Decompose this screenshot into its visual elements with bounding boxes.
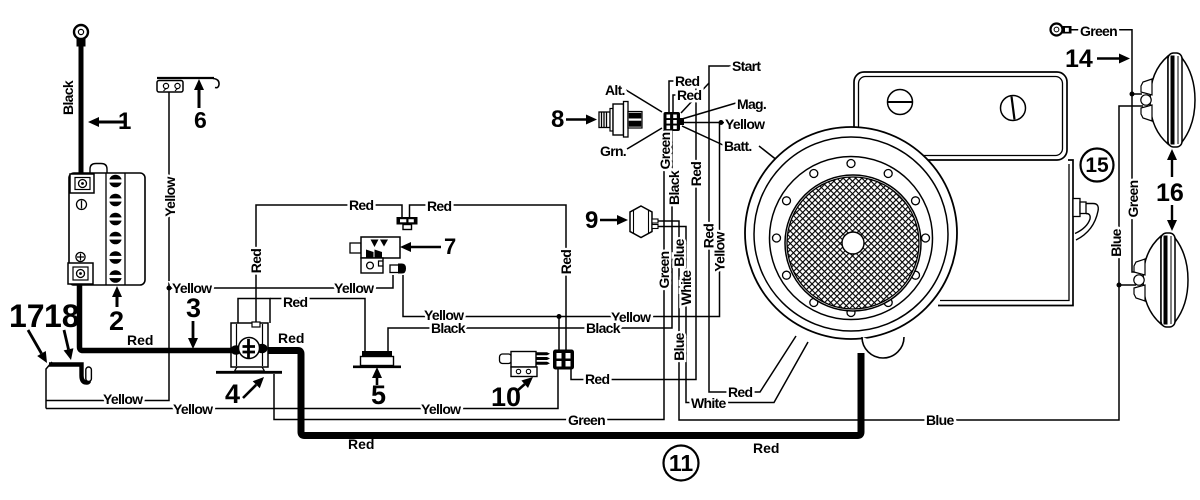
svg-text:White: White [691, 395, 727, 411]
svg-text:Black: Black [666, 170, 682, 205]
svg-text:Alt.: Alt. [605, 82, 625, 98]
svg-text:Start: Start [732, 58, 761, 74]
svg-text:4: 4 [225, 379, 240, 409]
svg-text:Yellow: Yellow [712, 232, 728, 272]
svg-text:Red: Red [427, 198, 451, 214]
svg-text:Green: Green [568, 412, 605, 428]
svg-text:Yellow: Yellow [421, 401, 461, 417]
svg-text:Red: Red [248, 249, 264, 273]
svg-text:Yellow: Yellow [173, 401, 213, 417]
svg-text:Yellow: Yellow [162, 177, 178, 217]
svg-text:15: 15 [1085, 154, 1109, 177]
svg-text:Red: Red [728, 384, 752, 400]
svg-text:Red: Red [127, 332, 153, 348]
svg-text:5: 5 [371, 380, 386, 410]
svg-text:Black: Black [60, 80, 76, 115]
svg-text:Red: Red [753, 440, 779, 456]
svg-text:Yellow: Yellow [172, 280, 212, 296]
svg-text:Red: Red [278, 330, 304, 346]
svg-text:Blue: Blue [1108, 228, 1124, 256]
svg-text:Yellow: Yellow [725, 116, 765, 132]
svg-text:White: White [678, 270, 694, 306]
svg-text:Mag.: Mag. [737, 96, 766, 112]
svg-text:11: 11 [669, 450, 694, 476]
svg-text:Blue: Blue [671, 238, 687, 266]
svg-text:Red: Red [677, 87, 701, 103]
svg-text:Green: Green [1080, 23, 1117, 39]
svg-text:Green: Green [656, 251, 672, 288]
svg-text:Yellow: Yellow [103, 391, 143, 407]
svg-text:Blue: Blue [926, 412, 954, 428]
svg-text:9: 9 [585, 207, 598, 234]
svg-text:Red: Red [349, 197, 373, 213]
svg-text:Black: Black [586, 320, 621, 336]
svg-text:16: 16 [1156, 179, 1184, 207]
svg-text:Red: Red [585, 371, 609, 387]
svg-text:Green: Green [1125, 180, 1141, 217]
svg-text:Grn.: Grn. [600, 143, 626, 159]
svg-text:17: 17 [9, 298, 45, 334]
svg-text:Red: Red [558, 250, 574, 274]
svg-text:10: 10 [491, 382, 521, 412]
svg-text:8: 8 [551, 106, 564, 133]
svg-text:Red: Red [348, 436, 374, 452]
svg-text:Red: Red [283, 294, 307, 310]
svg-text:7: 7 [444, 234, 456, 259]
svg-text:18: 18 [44, 298, 80, 334]
svg-text:Red: Red [688, 162, 704, 186]
svg-text:3: 3 [186, 293, 201, 323]
svg-text:Batt.: Batt. [724, 138, 752, 154]
svg-text:Blue: Blue [671, 332, 687, 360]
svg-text:14: 14 [1065, 45, 1093, 73]
svg-text:Black: Black [431, 320, 466, 336]
svg-text:Yellow: Yellow [334, 280, 374, 296]
svg-text:Green: Green [657, 132, 673, 169]
svg-text:6: 6 [194, 107, 207, 133]
svg-text:2: 2 [109, 306, 124, 336]
